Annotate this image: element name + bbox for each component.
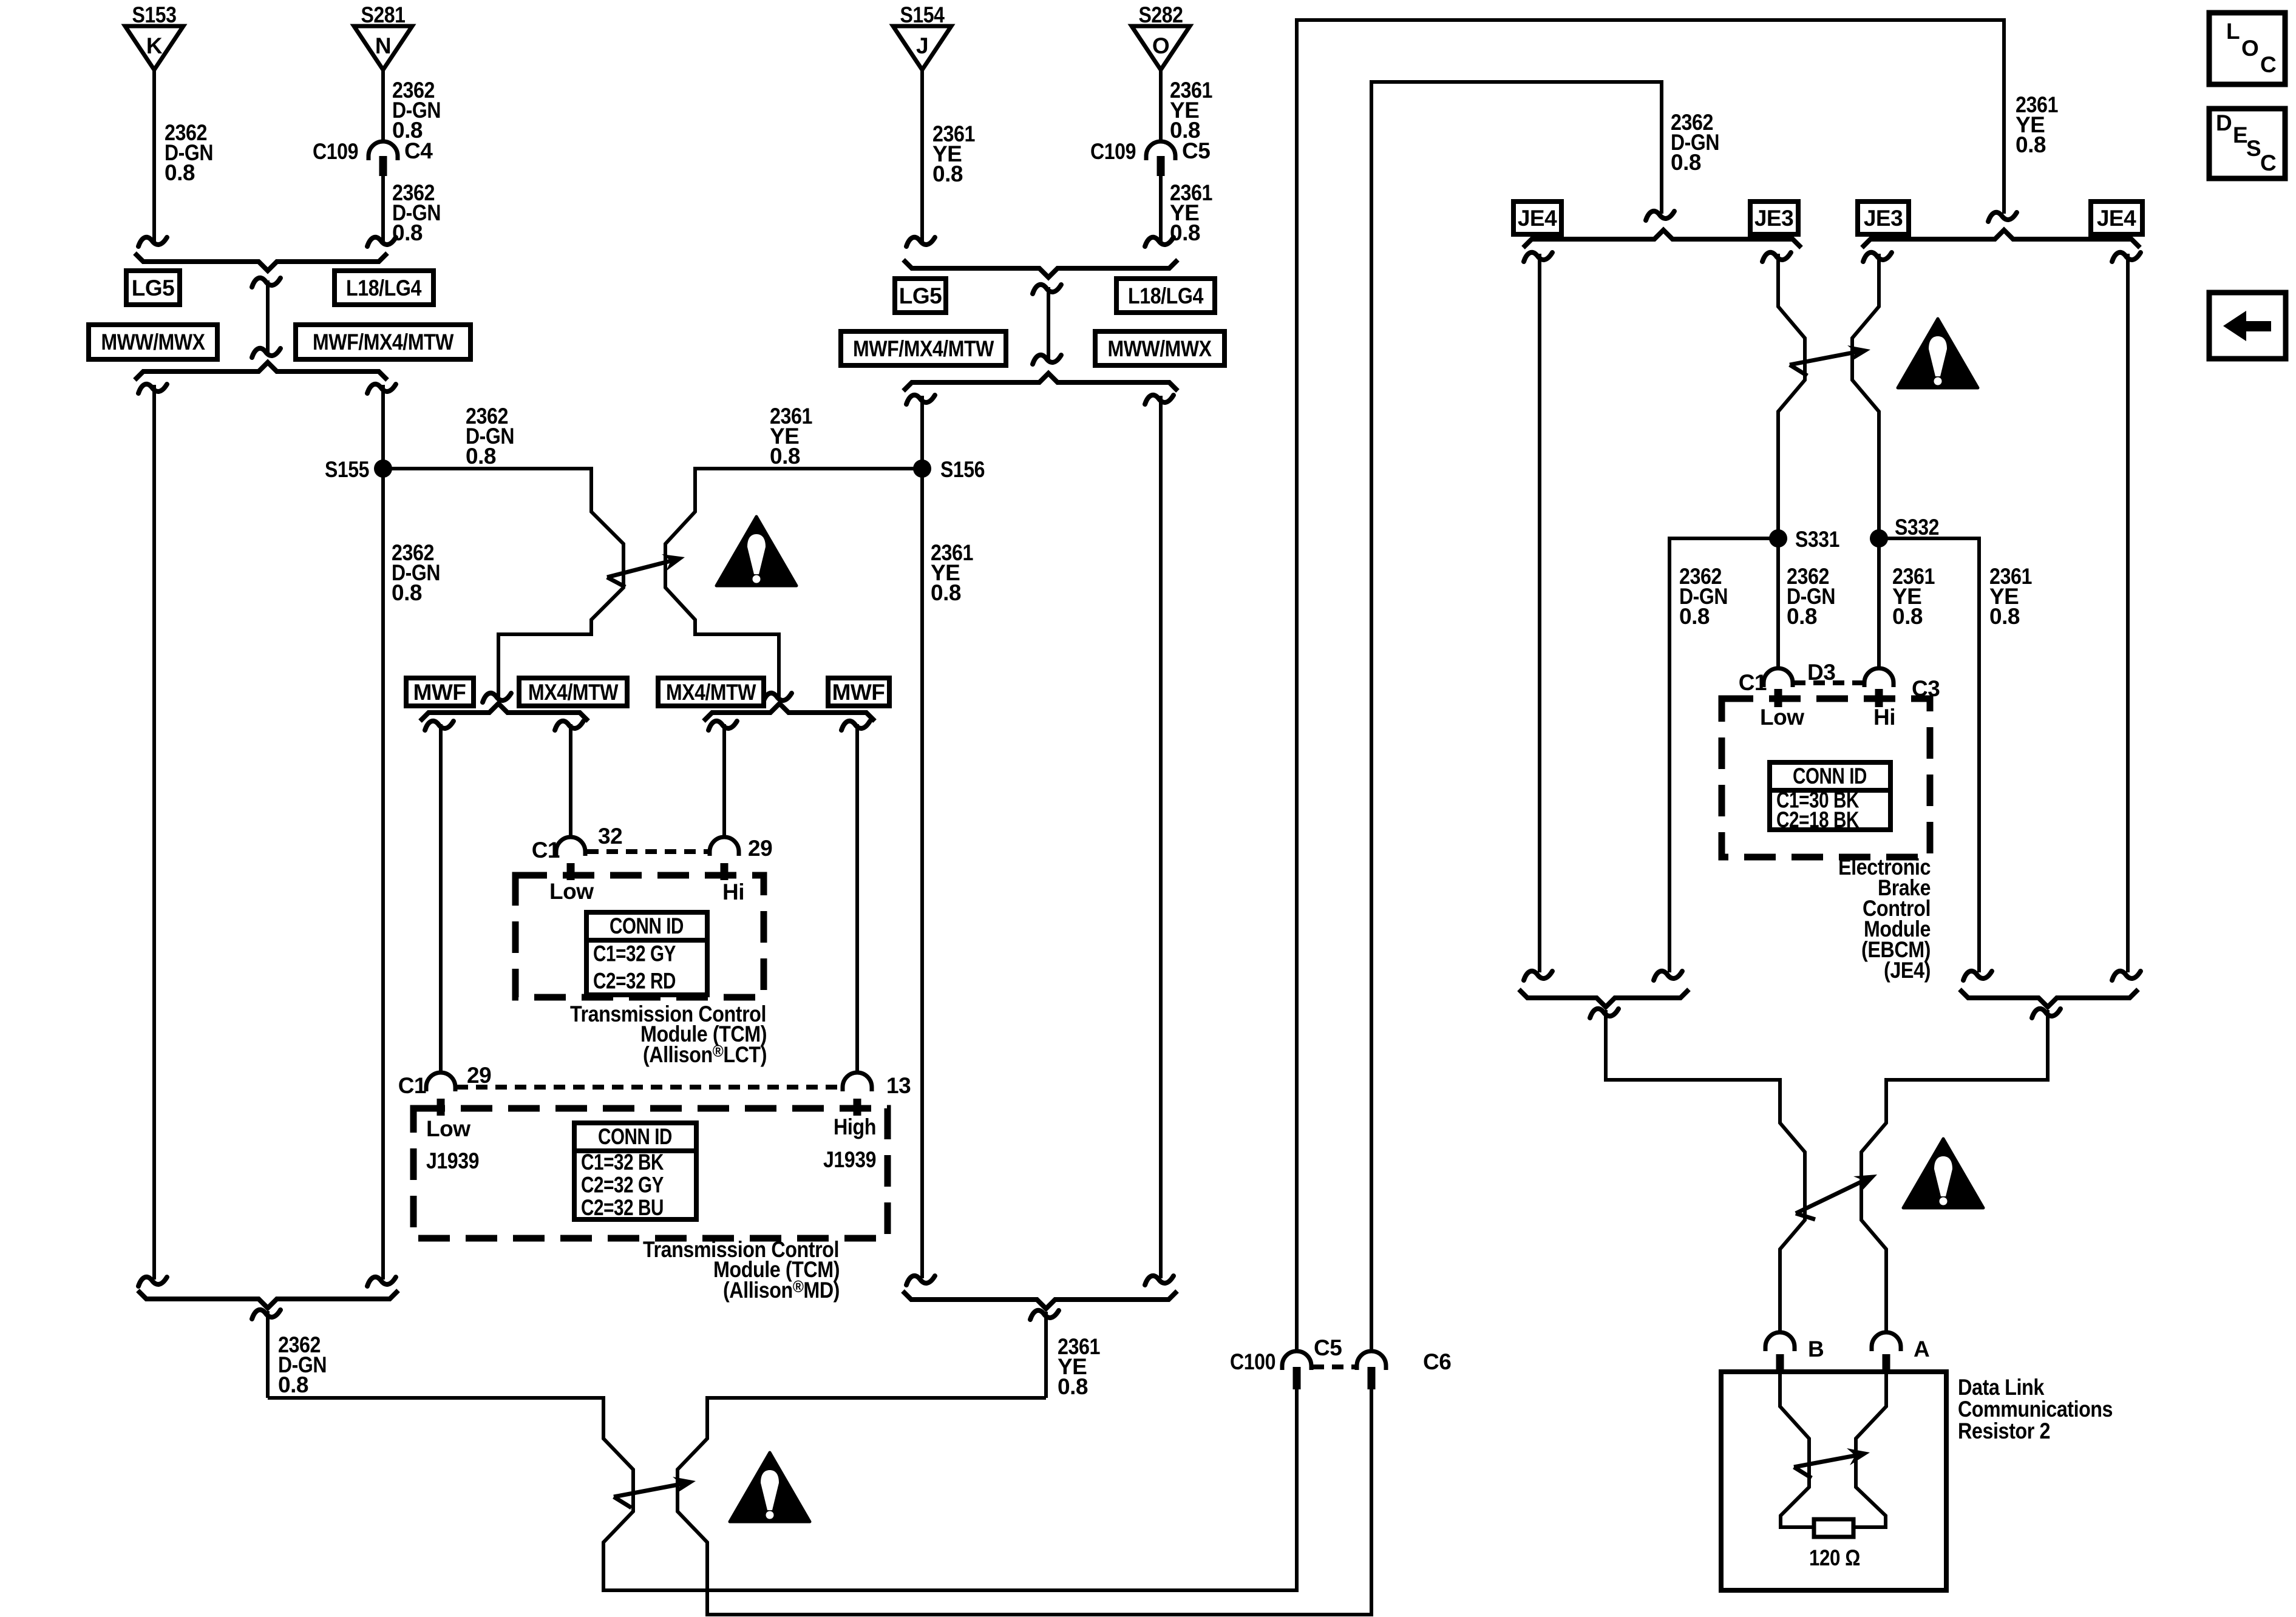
svg-text:MWF: MWF (832, 680, 885, 705)
in-line connector C109 C4 (369, 141, 398, 176)
harness output wire 2361 YE (1044, 1312, 1048, 1398)
wire-top hook (367, 384, 396, 393)
wire-end hook (906, 237, 935, 246)
resistor internal wire A side (1855, 1372, 1886, 1527)
EBCM connector C3 (1864, 668, 1894, 707)
wire JE4 right long (2126, 254, 2130, 972)
svg-text:C: C (2260, 52, 2276, 77)
wire-top hook (906, 395, 935, 404)
wire-top hook (2032, 1009, 2060, 1018)
svg-text:S281: S281 (361, 2, 406, 27)
svg-text:C1=32 BK: C1=32 BK (581, 1150, 664, 1175)
svg-text:C: C (2260, 151, 2276, 175)
harness label box LG5 (126, 271, 180, 305)
wire 2361 YE top rail (C100 C5 to JE4 brace) (1297, 20, 2004, 1351)
svg-text:LG5: LG5 (899, 283, 942, 308)
harness brace (JE4/JE3 left) (1523, 230, 1801, 248)
branch wire 2362 D-GN (S331 to harness) (1669, 538, 1778, 972)
svg-text:JE3: JE3 (1864, 206, 1903, 231)
svg-text:MWF/MX4/MTW: MWF/MX4/MTW (313, 330, 453, 354)
svg-text:(Allison®MD): (Allison®MD) (723, 1277, 840, 1303)
svg-text:0.8: 0.8 (770, 444, 800, 469)
svg-text:0.8: 0.8 (1787, 604, 1817, 629)
connector face dashed line (457, 1085, 841, 1090)
svg-text:S282: S282 (1139, 2, 1183, 27)
twisted-pair wire JE3 to S331 (1778, 254, 1805, 538)
svg-text:K: K (146, 33, 163, 58)
twist indicator arrow (1790, 345, 1870, 376)
wire label 2361 YE 0.8 (932, 121, 975, 186)
legend box LOC (2209, 13, 2285, 84)
harness label box L18/LG4 (335, 271, 433, 305)
svg-text:C4: C4 (404, 138, 433, 163)
splice junction S332 (1870, 529, 1888, 547)
svg-text:C2=32 RD: C2=32 RD (593, 969, 676, 994)
harness label box MWF (828, 678, 889, 706)
svg-text:L18/LG4: L18/LG4 (346, 276, 422, 300)
wire-top hook (708, 721, 737, 730)
wire-top hook (555, 721, 583, 730)
svg-text:13: 13 (886, 1073, 911, 1098)
warning triangle (716, 517, 796, 586)
wire to TCM MD C1 (439, 724, 443, 1072)
vertical bundle brace (1033, 285, 1061, 364)
harness brace bottom-left (K,N) (138, 1290, 398, 1308)
svg-text:Resistor 2: Resistor 2 (1958, 1419, 2050, 1443)
svg-text:MX4/MTW: MX4/MTW (528, 680, 618, 705)
CONN ID table (EBCM) (1770, 762, 1890, 832)
svg-text:S332: S332 (1895, 515, 1939, 540)
connector triangle S154 J (893, 2, 951, 70)
twisted-pair wire JE3 to S332 (1852, 254, 1879, 538)
Data Link Communications Resistor 2 box (1721, 1372, 1946, 1590)
svg-text:CONN ID: CONN ID (610, 914, 684, 938)
wire-top hook (1524, 253, 1552, 262)
harness label box MWF/MX4/MTW (296, 325, 470, 359)
harness label box JE4 (1513, 202, 1561, 234)
twist indicator arrow (607, 554, 685, 587)
wire-top hook (138, 384, 167, 393)
svg-text:29: 29 (467, 1063, 491, 1088)
svg-text:Hi: Hi (722, 880, 744, 904)
svg-text:C6: C6 (1423, 1349, 1451, 1374)
svg-text:Low: Low (426, 1116, 470, 1141)
svg-text:Data Link: Data Link (1958, 1375, 2045, 1400)
component name Data Link Communications Resistor 2 (1958, 1375, 2113, 1443)
svg-text:JE4: JE4 (2097, 206, 2136, 231)
svg-text:L18/LG4: L18/LG4 (1128, 283, 1204, 308)
resistor internal wire B side (1780, 1372, 1812, 1527)
wire label 2362 D-GN 0.8 (278, 1332, 327, 1397)
TCM MD connector pin 13 (843, 1073, 872, 1116)
svg-text:(Allison®LCT): (Allison®LCT) (643, 1042, 767, 1067)
wire-top hook (1145, 395, 1173, 404)
module name Electronic Brake Control Module (EBCM) (JE4) (1838, 855, 1931, 983)
wire 2361 YE from S154 (920, 70, 924, 242)
svg-text:C2=32 BU: C2=32 BU (581, 1195, 664, 1220)
module name Transmission Control Module (TCM) (Allison LCT) (570, 1002, 767, 1067)
TCM (Allison MD) dashed module box (413, 1108, 888, 1238)
connector triangle S281 N (354, 2, 412, 70)
connector face dashed line (1313, 1364, 1356, 1369)
wire 2361 YE from S282 (1159, 70, 1163, 140)
svg-text:0.8: 0.8 (1671, 150, 1701, 175)
svg-text:0.8: 0.8 (392, 580, 422, 605)
legend box DESC (2209, 109, 2285, 178)
CONN ID table (TCM MD) (574, 1123, 696, 1220)
branch wire 2361 YE (S332 to harness) (1879, 538, 1979, 972)
svg-text:S156: S156 (940, 457, 985, 482)
harness brace top (J,O bundle) (903, 260, 1178, 277)
svg-text:C1: C1 (532, 838, 560, 863)
warning triangle (1898, 319, 1978, 388)
wire label 2362 D-GN 0.8 (below S155) (392, 540, 440, 605)
svg-text:C2=32 GY: C2=32 GY (581, 1173, 664, 1198)
svg-text:B: B (1808, 1337, 1824, 1361)
harness brace bottom (K,N bundle) (135, 362, 387, 380)
wire JE4 left long (1538, 254, 1541, 972)
warning triangle (1903, 1139, 1983, 1208)
svg-text:0.8: 0.8 (931, 580, 961, 605)
vertical bundle brace (252, 278, 280, 358)
harness label box MX4/MTW (519, 678, 627, 706)
svg-text:32: 32 (598, 824, 622, 849)
wire 2362 D-GN (S331 to EBCM C1) (1776, 538, 1780, 668)
wire-end hook (367, 237, 396, 246)
wire label 2361 YE 0.8 (1892, 564, 1935, 629)
module name Transmission Control Module (TCM) (Allison MD) (643, 1237, 840, 1303)
wire label 2362 D-GN 0.8 (392, 180, 441, 245)
wire-end hook (763, 693, 792, 702)
wire 2362 D-GN (N column, through S155) (381, 385, 385, 1280)
svg-text:Low: Low (549, 879, 594, 904)
wire label 2361 YE 0.8 (1170, 180, 1212, 245)
wire label 2362 D-GN 0.8 (S155 branch) (466, 404, 514, 469)
svg-text:0.8: 0.8 (392, 220, 423, 245)
svg-text:L: L (2226, 19, 2240, 44)
twist indicator arrow (1794, 1448, 1870, 1478)
svg-text:A: A (1914, 1337, 1929, 1361)
wire to TCM MD pin 13 (855, 724, 859, 1072)
wire 2362 D-GN below C109 (381, 176, 385, 242)
svg-text:C5: C5 (1182, 138, 1210, 163)
wire-end hook (906, 1276, 935, 1285)
harness brace top (K,N bundle) (135, 253, 387, 271)
wire-end hook (1145, 1276, 1173, 1285)
TCM (Allison LCT) dashed module box (515, 875, 764, 997)
harness label box MWF/MX4/MTW (841, 331, 1006, 365)
wire-end hook (138, 237, 167, 246)
TCM MD connector C1 pin 29 (426, 1073, 455, 1116)
harness brace bottom (J,O bundle) (903, 373, 1178, 391)
harness label box LG5 (895, 279, 946, 313)
svg-text:S153: S153 (132, 2, 177, 27)
wire label 2362 D-GN 0.8 (1671, 110, 1719, 175)
twist indicator arrow (614, 1477, 696, 1508)
svg-text:0.8: 0.8 (1170, 220, 1200, 245)
TCM LCT connector C1 pin 32 (556, 837, 585, 880)
harness label box MWW/MWX (1095, 331, 1224, 365)
wire to TCM LCT pin 29 (722, 724, 726, 836)
svg-text:C2=18 BK: C2=18 BK (1776, 807, 1860, 832)
connector face dashed line (1794, 680, 1863, 685)
wire to TCM LCT C1 pin 32 (569, 724, 572, 836)
wire 2362 D-GN from S153 (152, 70, 156, 242)
wire label 2361 YE 0.8 (1170, 78, 1212, 143)
harness label box MWW/MWX (89, 325, 217, 359)
svg-text:0.8: 0.8 (1058, 1374, 1088, 1399)
svg-text:Hi: Hi (1873, 705, 1895, 730)
wire 2362 D-GN from S281 (381, 70, 385, 140)
wire label 2362 D-GN 0.8 (1679, 564, 1728, 629)
twisted-pair wire from S156 (665, 469, 922, 698)
svg-text:S155: S155 (325, 457, 369, 482)
svg-text:MWW/MWX: MWW/MWX (1108, 336, 1212, 361)
svg-text:0.8: 0.8 (165, 160, 195, 185)
wire label 2362 D-GN 0.8 (392, 78, 441, 143)
wire-end hook (1145, 237, 1173, 246)
wire label 2362 D-GN 0.8 (165, 120, 213, 185)
svg-text:J: J (916, 33, 928, 58)
svg-text:120 Ω: 120 Ω (1809, 1545, 1860, 1570)
svg-text:MX4/MTW: MX4/MTW (666, 680, 756, 705)
wire-top hook (1030, 1310, 1059, 1320)
connector triangle S282 O (1132, 2, 1190, 70)
wire-top hook (1590, 1009, 1618, 1018)
svg-text:JE3: JE3 (1754, 206, 1793, 231)
resistor connector pin B (1765, 1332, 1795, 1372)
svg-text:CONN ID: CONN ID (1793, 764, 1867, 788)
svg-text:Communications: Communications (1958, 1397, 2113, 1422)
harness brace bottom-right (J,O) (903, 1291, 1177, 1309)
svg-text:0.8: 0.8 (1989, 604, 2020, 629)
wire-end hook (1963, 971, 1992, 980)
svg-text:LG5: LG5 (132, 276, 174, 300)
harness brace (MX4/MTW,MWF right) (704, 703, 875, 721)
svg-text:C1: C1 (398, 1073, 426, 1098)
harness brace (MWF,MX4/MTW left) (420, 703, 588, 721)
wire 2362 D-GN top rail (C100 C6 to JE4 brace) (1371, 82, 1662, 1351)
svg-text:C1: C1 (1739, 670, 1767, 695)
twist indicator arrow (1796, 1175, 1877, 1219)
twisted-pair wire 2361 YE to C100 C6 (678, 1386, 1371, 1615)
wire-top hook (425, 721, 453, 730)
svg-text:0.8: 0.8 (1679, 604, 1710, 629)
in-line connector C109 C5 (1146, 141, 1175, 176)
svg-text:C109: C109 (313, 139, 358, 164)
wire 2361 YE (J column, through S156) (920, 396, 924, 1278)
harness label box JE4 (2091, 202, 2142, 234)
resistor connector pin A (1872, 1332, 1901, 1372)
svg-text:C100: C100 (1230, 1349, 1275, 1374)
wire-end hook (483, 693, 511, 702)
resistor R 120 ohm (1814, 1519, 1853, 1537)
svg-text:CONN ID: CONN ID (598, 1124, 672, 1149)
splice junction S156 (913, 459, 931, 478)
svg-text:S331: S331 (1795, 527, 1839, 552)
svg-text:0.8: 0.8 (278, 1372, 308, 1397)
wire-end hook (1988, 212, 2017, 222)
svg-text:D: D (2216, 110, 2232, 135)
svg-text:MWF/MX4/MTW: MWF/MX4/MTW (853, 336, 994, 361)
TCM LCT connector pin 29 (710, 837, 739, 880)
wire-end hook (1524, 971, 1552, 980)
wire 2361 YE (S332 to EBCM C3) (1877, 538, 1881, 668)
splice junction S331 (1769, 529, 1787, 547)
harness brace (JE3/JE4 right) (1862, 230, 2140, 248)
wire-top hook (252, 1310, 280, 1319)
svg-text:JE4: JE4 (1518, 206, 1557, 231)
svg-text:MWF: MWF (413, 680, 466, 705)
connector triangle S153 K (125, 2, 183, 70)
wire-end hook (1646, 211, 1674, 220)
svg-text:C109: C109 (1090, 139, 1136, 164)
svg-text:Low: Low (1760, 705, 1804, 730)
wire label 2361 YE 0.8 (below S156) (931, 540, 973, 605)
wire label 2362 D-GN 0.8 (1787, 564, 1835, 629)
svg-text:(JE4): (JE4) (1884, 958, 1931, 983)
wire-top hook (2112, 253, 2141, 262)
EBCM dashed module box (1722, 699, 1930, 857)
harness label box L18/LG4 (1116, 279, 1215, 313)
harness brace (EBCM high side) (1960, 989, 2138, 1007)
harness label box JE3 (1750, 202, 1798, 234)
harness brace (EBCM low side) (1519, 989, 1689, 1007)
svg-text:S154: S154 (900, 2, 945, 27)
twisted-pair wire from S155 (383, 469, 623, 698)
svg-text:N: N (375, 33, 391, 58)
svg-text:MWW/MWX: MWW/MWX (101, 330, 206, 354)
wire label 2361 YE 0.8 (1989, 564, 2032, 629)
EBCM connector C1 pin D3 (1764, 668, 1793, 707)
svg-text:C1=32 GY: C1=32 GY (593, 941, 676, 966)
svg-text:O: O (2241, 36, 2258, 61)
harness label box MX4/MTW (658, 678, 764, 706)
wire 2361 YE below C109 (1159, 176, 1163, 242)
svg-text:C5: C5 (1314, 1335, 1342, 1360)
CONN ID table (TCM LCT) (586, 912, 707, 995)
wire-top hook (1863, 253, 1892, 262)
wire label 2361 YE 0.8 (1058, 1334, 1100, 1399)
warning triangle (730, 1453, 810, 1522)
wire-end hook (2112, 971, 2141, 980)
wire-top hook (841, 721, 870, 730)
svg-text:0.8: 0.8 (466, 444, 496, 469)
connector face dashed line (587, 849, 708, 854)
twisted-pair wire 2362 D-GN to C100 C5 (268, 1386, 1297, 1590)
svg-text:29: 29 (748, 836, 772, 861)
svg-text:S: S (2246, 136, 2261, 161)
svg-text:0.8: 0.8 (1892, 604, 1923, 629)
svg-text:0.8: 0.8 (932, 161, 963, 186)
harness label box JE3 (1858, 202, 1909, 234)
svg-text:High: High (834, 1114, 876, 1139)
legend box back-arrow (2209, 293, 2286, 359)
in-line connector C100 C5 (1282, 1351, 1311, 1389)
twisted-pair wire to resistor pin B (1606, 1010, 1805, 1332)
wire-end hook (138, 1277, 167, 1286)
harness label box MWF (406, 678, 474, 706)
svg-text:J1939: J1939 (426, 1148, 479, 1173)
wire-top hook (1762, 253, 1791, 262)
harness output wire 2362 D-GN (266, 1311, 270, 1398)
wire-end hook (1654, 971, 1682, 980)
wire label 2361 YE 0.8 (2016, 92, 2058, 157)
wire 2362 D-GN (K column) (152, 385, 156, 1280)
wire label 2361 YE 0.8 (S156 branch) (770, 404, 812, 469)
in-line connector C100 C6 (1357, 1351, 1386, 1389)
svg-text:0.8: 0.8 (2016, 132, 2046, 157)
twisted-pair wire to resistor pin A (1861, 1010, 2048, 1332)
svg-text:J1939: J1939 (823, 1147, 876, 1172)
wire-end hook (367, 1277, 396, 1286)
splice junction S155 (374, 459, 392, 478)
svg-text:O: O (1152, 33, 1169, 58)
wire 2361 YE (O column) (1159, 396, 1163, 1278)
svg-text:E: E (2233, 123, 2247, 147)
